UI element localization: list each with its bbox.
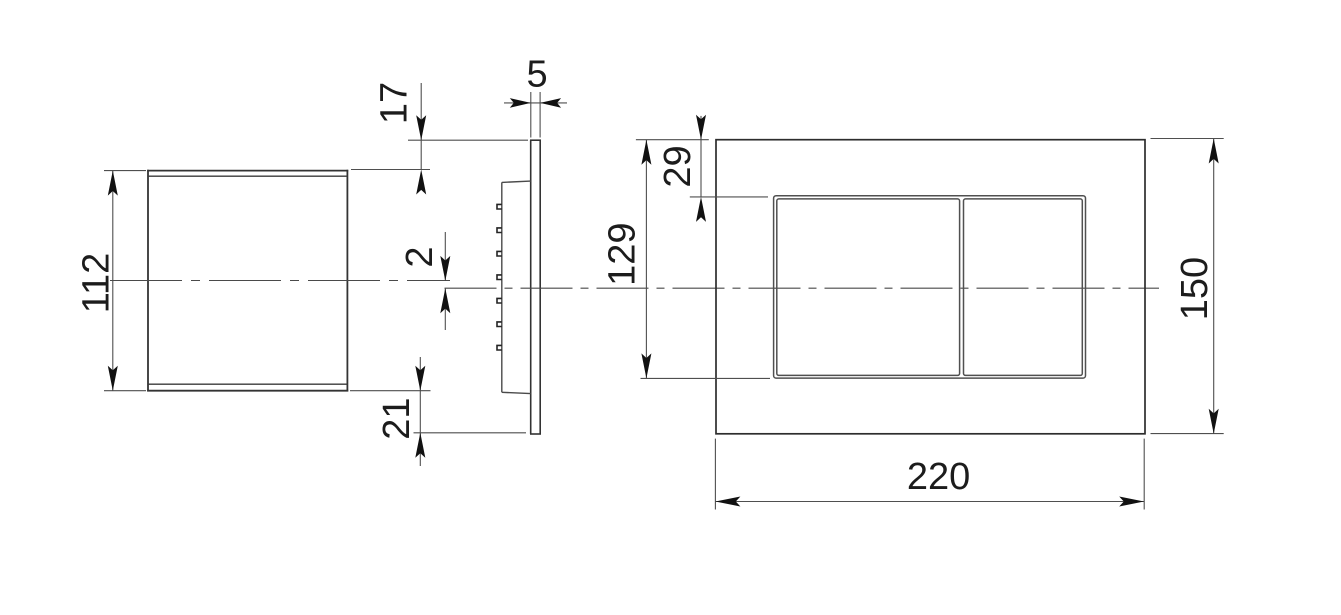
back view inner edge lines (148, 176, 347, 384)
svg-text:5: 5 (527, 54, 548, 96)
left button (777, 199, 960, 376)
dimension 129 line (645, 140, 647, 379)
dimension 220 line (715, 501, 1144, 503)
back view outline (147, 170, 348, 392)
svg-text:112: 112 (75, 253, 117, 314)
dimension 29 arrows (696, 115, 706, 140)
svg-text:129: 129 (602, 222, 644, 285)
side plate outline (530, 140, 541, 434)
center line left view (110, 280, 450, 282)
dimension 29 line (700, 116, 702, 140)
front plate outline (716, 140, 1145, 434)
dimension 220 extension lines (715, 439, 1144, 510)
dimension 17 line (420, 83, 422, 140)
center line chain (side + front view) (445, 287, 1160, 289)
dimension 129 extension lines (636, 140, 770, 379)
dimension 2 arrows (440, 256, 450, 281)
dimension 112 arrows (108, 171, 118, 196)
svg-text:150: 150 (1174, 257, 1216, 320)
svg-text:21: 21 (376, 397, 418, 439)
mounting box profile (502, 181, 531, 394)
dimension 21 arrows (415, 366, 425, 391)
clip teeth (497, 204, 502, 350)
svg-text:17: 17 (374, 82, 416, 124)
dimension 150 extension lines (1151, 139, 1224, 434)
dimension 150 arrows (1209, 139, 1219, 164)
dimension 5 extension lines (531, 92, 540, 138)
dimension 29 extension line (690, 196, 768, 198)
dimension 2 line (444, 232, 446, 281)
dimension 112 extension lines (104, 171, 146, 391)
dimension 129 arrows (641, 140, 651, 165)
dimension 21 line (419, 357, 421, 391)
dimension 17 arrows (416, 115, 426, 140)
svg-text:220: 220 (907, 456, 970, 498)
dimension 220 arrows (715, 497, 740, 507)
dimension 5 arrows (510, 98, 531, 108)
right button (964, 199, 1083, 376)
dimension 21 extension lines (350, 391, 526, 433)
dimension 5 line (504, 102, 567, 104)
dimension 150 line (1213, 139, 1215, 434)
svg-text:2: 2 (399, 246, 441, 267)
dimension 112 line (112, 171, 114, 391)
svg-text:29: 29 (657, 145, 699, 187)
buttons outer frame (774, 196, 1086, 378)
dimension 17 extension lines (351, 140, 528, 169)
